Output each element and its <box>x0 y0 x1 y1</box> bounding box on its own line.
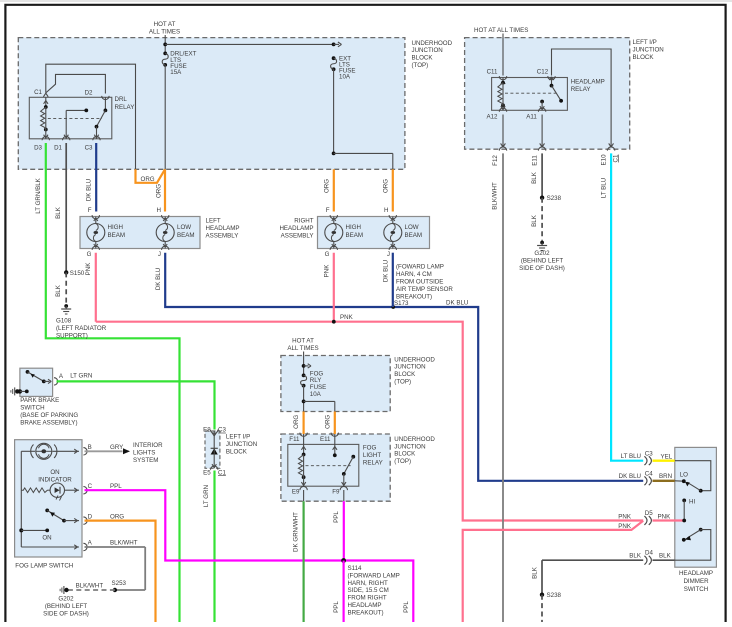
svg-text:DK BLU: DK BLU <box>446 300 468 307</box>
svg-text:UNDERHOOD: UNDERHOOD <box>412 40 453 47</box>
svg-text:BLOCK: BLOCK <box>412 55 434 62</box>
svg-text:BLK: BLK <box>55 206 62 219</box>
svg-text:LO: LO <box>680 472 688 479</box>
svg-text:15A: 15A <box>170 69 182 76</box>
svg-text:RELAY: RELAY <box>115 104 135 111</box>
svg-text:G: G <box>325 251 330 258</box>
svg-text:DK BLU: DK BLU <box>619 473 641 480</box>
svg-text:HEADLAMP: HEADLAMP <box>279 225 313 232</box>
svg-text:PNK: PNK <box>618 523 632 530</box>
svg-text:ORG: ORG <box>293 415 300 429</box>
svg-text:F9: F9 <box>332 489 340 496</box>
svg-text:D4: D4 <box>645 550 653 557</box>
svg-text:F: F <box>326 207 330 214</box>
svg-text:PNK: PNK <box>323 264 330 278</box>
svg-text:SUPPORT): SUPPORT) <box>56 333 88 340</box>
svg-text:(FORWARD LAMP: (FORWARD LAMP <box>348 572 400 579</box>
svg-text:H: H <box>157 207 161 214</box>
svg-text:ORG: ORG <box>323 179 330 193</box>
svg-text:FROM RIGHT: FROM RIGHT <box>348 595 387 602</box>
svg-text:LEFT: LEFT <box>206 218 221 225</box>
svg-text:DK BLU: DK BLU <box>155 268 162 290</box>
svg-text:BLK/WHT: BLK/WHT <box>110 540 138 547</box>
svg-text:SWITCH: SWITCH <box>20 405 44 412</box>
svg-text:SWITCH: SWITCH <box>684 586 708 593</box>
svg-text:C1: C1 <box>218 469 226 476</box>
svg-text:RIGHT: RIGHT <box>294 218 313 225</box>
svg-text:BLK: BLK <box>659 553 672 560</box>
svg-text:A12: A12 <box>486 114 498 121</box>
svg-text:BEAM: BEAM <box>346 232 364 239</box>
svg-text:LEFT I/P: LEFT I/P <box>226 434 250 441</box>
svg-text:H: H <box>384 207 388 214</box>
svg-text:HEADLAMP: HEADLAMP <box>206 225 240 232</box>
svg-text:G: G <box>87 251 92 258</box>
svg-text:LT BLU: LT BLU <box>600 178 607 198</box>
svg-text:JUNCTION: JUNCTION <box>394 443 425 450</box>
svg-text:HOT AT ALL TIMES: HOT AT ALL TIMES <box>474 27 528 34</box>
svg-text:JUNCTION: JUNCTION <box>226 441 257 448</box>
svg-text:LT GRN: LT GRN <box>70 373 92 380</box>
svg-text:J: J <box>158 251 161 258</box>
svg-text:D2: D2 <box>85 90 93 97</box>
svg-text:JUNCTION: JUNCTION <box>394 364 425 371</box>
svg-text:LT GRN: LT GRN <box>203 485 210 507</box>
svg-text:BRAKE ASSEMBLY): BRAKE ASSEMBLY) <box>20 420 77 427</box>
svg-text:PARK BRAKE: PARK BRAKE <box>20 397 59 404</box>
svg-text:BLOCK: BLOCK <box>394 371 416 378</box>
svg-text:DRL: DRL <box>115 96 128 103</box>
svg-text:PNK: PNK <box>340 314 354 321</box>
svg-text:JUNCTION: JUNCTION <box>633 46 664 53</box>
svg-text:SIDE, 15.5 CM: SIDE, 15.5 CM <box>348 587 389 594</box>
svg-text:SIDE OF DASH): SIDE OF DASH) <box>43 611 89 618</box>
svg-text:C: C <box>88 483 93 490</box>
svg-text:A11: A11 <box>526 114 537 121</box>
svg-text:HI: HI <box>689 498 695 505</box>
svg-text:ON: ON <box>50 469 59 476</box>
svg-text:ORG: ORG <box>141 176 155 183</box>
svg-text:LT GRN/BLK: LT GRN/BLK <box>35 177 42 213</box>
svg-text:ALL TIMES: ALL TIMES <box>149 29 180 36</box>
svg-text:E11: E11 <box>532 155 539 166</box>
svg-text:JUNCTION: JUNCTION <box>412 47 443 54</box>
svg-text:ASSEMBLY: ASSEMBLY <box>206 233 239 240</box>
svg-text:E10: E10 <box>600 154 607 166</box>
svg-text:PNK: PNK <box>85 262 92 276</box>
svg-text:INTERIOR: INTERIOR <box>133 442 163 449</box>
svg-text:HARN, 4 CM: HARN, 4 CM <box>396 271 432 278</box>
svg-text:SYSTEM: SYSTEM <box>133 457 158 464</box>
svg-text:PPL: PPL <box>333 511 340 523</box>
svg-text:SIDE OF DASH): SIDE OF DASH) <box>519 265 565 272</box>
svg-text:RELAY: RELAY <box>363 460 383 467</box>
svg-text:D1: D1 <box>54 144 62 151</box>
svg-text:S114: S114 <box>348 565 363 572</box>
svg-text:DK BLU: DK BLU <box>86 179 93 201</box>
svg-text:LOW: LOW <box>405 224 419 231</box>
svg-text:ORG: ORG <box>382 179 389 193</box>
svg-text:BLK: BLK <box>531 566 538 579</box>
svg-text:BEAM: BEAM <box>108 232 126 239</box>
svg-text:S150: S150 <box>70 270 85 277</box>
svg-text:F: F <box>88 207 92 214</box>
svg-text:BEAM: BEAM <box>405 232 423 239</box>
svg-text:AIR TEMP SENSOR: AIR TEMP SENSOR <box>396 286 453 293</box>
svg-text:D3: D3 <box>34 144 42 151</box>
svg-text:UNDERHOOD: UNDERHOOD <box>394 356 435 363</box>
svg-text:D: D <box>88 513 93 520</box>
svg-text:LIGHTS: LIGHTS <box>133 450 155 457</box>
svg-text:E8: E8 <box>203 427 211 434</box>
svg-text:BLK: BLK <box>531 171 538 184</box>
svg-text:PPL: PPL <box>333 601 340 613</box>
svg-text:FOG: FOG <box>363 445 377 452</box>
svg-text:BREAKOUT): BREAKOUT) <box>348 609 384 616</box>
svg-text:BLK: BLK <box>629 553 642 560</box>
svg-text:HIGH: HIGH <box>108 224 123 231</box>
svg-text:(BEHIND LEFT: (BEHIND LEFT <box>45 603 88 610</box>
svg-text:HOT AT: HOT AT <box>154 21 176 28</box>
svg-text:F11: F11 <box>289 436 300 443</box>
svg-text:BREAKOUT): BREAKOUT) <box>396 294 432 301</box>
svg-text:E5: E5 <box>203 469 211 476</box>
svg-text:ORG: ORG <box>110 513 124 520</box>
svg-text:LIGHT: LIGHT <box>363 452 381 459</box>
svg-text:ORG: ORG <box>324 415 331 429</box>
svg-text:(TOP): (TOP) <box>394 379 411 386</box>
svg-text:C1: C1 <box>34 89 42 96</box>
svg-text:DIMMER: DIMMER <box>683 578 709 585</box>
svg-text:ALL TIMES: ALL TIMES <box>287 345 318 352</box>
svg-text:ORG: ORG <box>155 184 162 198</box>
svg-text:(BASE OF PARKING: (BASE OF PARKING <box>20 412 78 419</box>
svg-text:C4: C4 <box>645 470 653 477</box>
svg-text:PNK: PNK <box>658 513 672 520</box>
svg-text:G202: G202 <box>58 596 74 603</box>
svg-text:F12: F12 <box>492 155 499 166</box>
svg-text:PPL: PPL <box>403 601 410 613</box>
svg-text:ON: ON <box>42 535 51 542</box>
svg-text:HEADLAMP: HEADLAMP <box>571 79 605 86</box>
svg-text:C3: C3 <box>645 450 653 457</box>
svg-text:UNDERHOOD: UNDERHOOD <box>394 436 435 443</box>
svg-text:BLK: BLK <box>531 214 538 227</box>
svg-text:LT BLU: LT BLU <box>621 453 641 460</box>
svg-text:C12: C12 <box>537 69 549 76</box>
svg-text:FOG LAMP SWITCH: FOG LAMP SWITCH <box>15 563 73 570</box>
svg-text:E9: E9 <box>292 489 300 496</box>
svg-text:S173: S173 <box>394 300 409 307</box>
svg-text:J: J <box>387 251 390 258</box>
svg-text:DK GRN/WHT: DK GRN/WHT <box>292 512 299 552</box>
svg-text:E11: E11 <box>320 436 331 443</box>
svg-text:BEAM: BEAM <box>177 232 195 239</box>
svg-text:HIGH: HIGH <box>346 224 361 231</box>
svg-text:PPL: PPL <box>110 483 122 490</box>
svg-text:LOW: LOW <box>177 224 191 231</box>
svg-text:S238: S238 <box>547 592 562 599</box>
svg-text:G108: G108 <box>56 318 72 325</box>
svg-text:C1: C1 <box>612 154 619 162</box>
svg-text:HEADLAMP: HEADLAMP <box>679 570 713 577</box>
svg-text:BLK/WHT: BLK/WHT <box>492 182 499 210</box>
svg-text:G202: G202 <box>534 250 550 257</box>
svg-text:RLY: RLY <box>310 377 322 384</box>
svg-text:(BEHIND LEFT: (BEHIND LEFT <box>521 258 564 265</box>
svg-text:INDICATOR: INDICATOR <box>38 477 72 484</box>
svg-text:(TOP): (TOP) <box>412 62 429 69</box>
svg-text:DK BLU: DK BLU <box>382 260 389 282</box>
svg-text:HEADLAMP: HEADLAMP <box>348 602 382 609</box>
svg-text:10A: 10A <box>310 391 322 398</box>
svg-text:S238: S238 <box>547 195 562 202</box>
svg-text:C11: C11 <box>487 69 498 76</box>
svg-text:C3: C3 <box>85 144 93 151</box>
svg-text:ASSEMBLY: ASSEMBLY <box>281 233 314 240</box>
svg-text:PNK: PNK <box>618 513 632 520</box>
svg-text:BLOCK: BLOCK <box>394 451 416 458</box>
svg-text:BLK/WHT: BLK/WHT <box>76 583 104 590</box>
svg-text:BLOCK: BLOCK <box>226 449 248 456</box>
svg-text:(FOWARD LAMP: (FOWARD LAMP <box>396 264 444 271</box>
svg-text:LEFT I/P: LEFT I/P <box>633 39 657 46</box>
svg-text:B: B <box>88 444 92 451</box>
svg-text:BLK: BLK <box>55 284 62 297</box>
svg-text:HOT AT: HOT AT <box>292 337 314 344</box>
svg-text:GRY: GRY <box>110 444 123 451</box>
svg-text:(LEFT RADIATOR: (LEFT RADIATOR <box>56 325 107 332</box>
svg-text:BLOCK: BLOCK <box>633 54 655 61</box>
svg-text:YEL: YEL <box>661 454 673 461</box>
svg-text:S253: S253 <box>112 580 127 587</box>
svg-text:FROM OUTSIDE: FROM OUTSIDE <box>396 279 443 286</box>
svg-text:BRN: BRN <box>659 473 672 480</box>
svg-text:10A: 10A <box>339 74 351 81</box>
svg-text:(TOP): (TOP) <box>394 458 411 465</box>
svg-text:RELAY: RELAY <box>571 86 591 93</box>
svg-text:D5: D5 <box>645 510 653 517</box>
svg-text:HARN, RIGHT: HARN, RIGHT <box>348 580 388 587</box>
